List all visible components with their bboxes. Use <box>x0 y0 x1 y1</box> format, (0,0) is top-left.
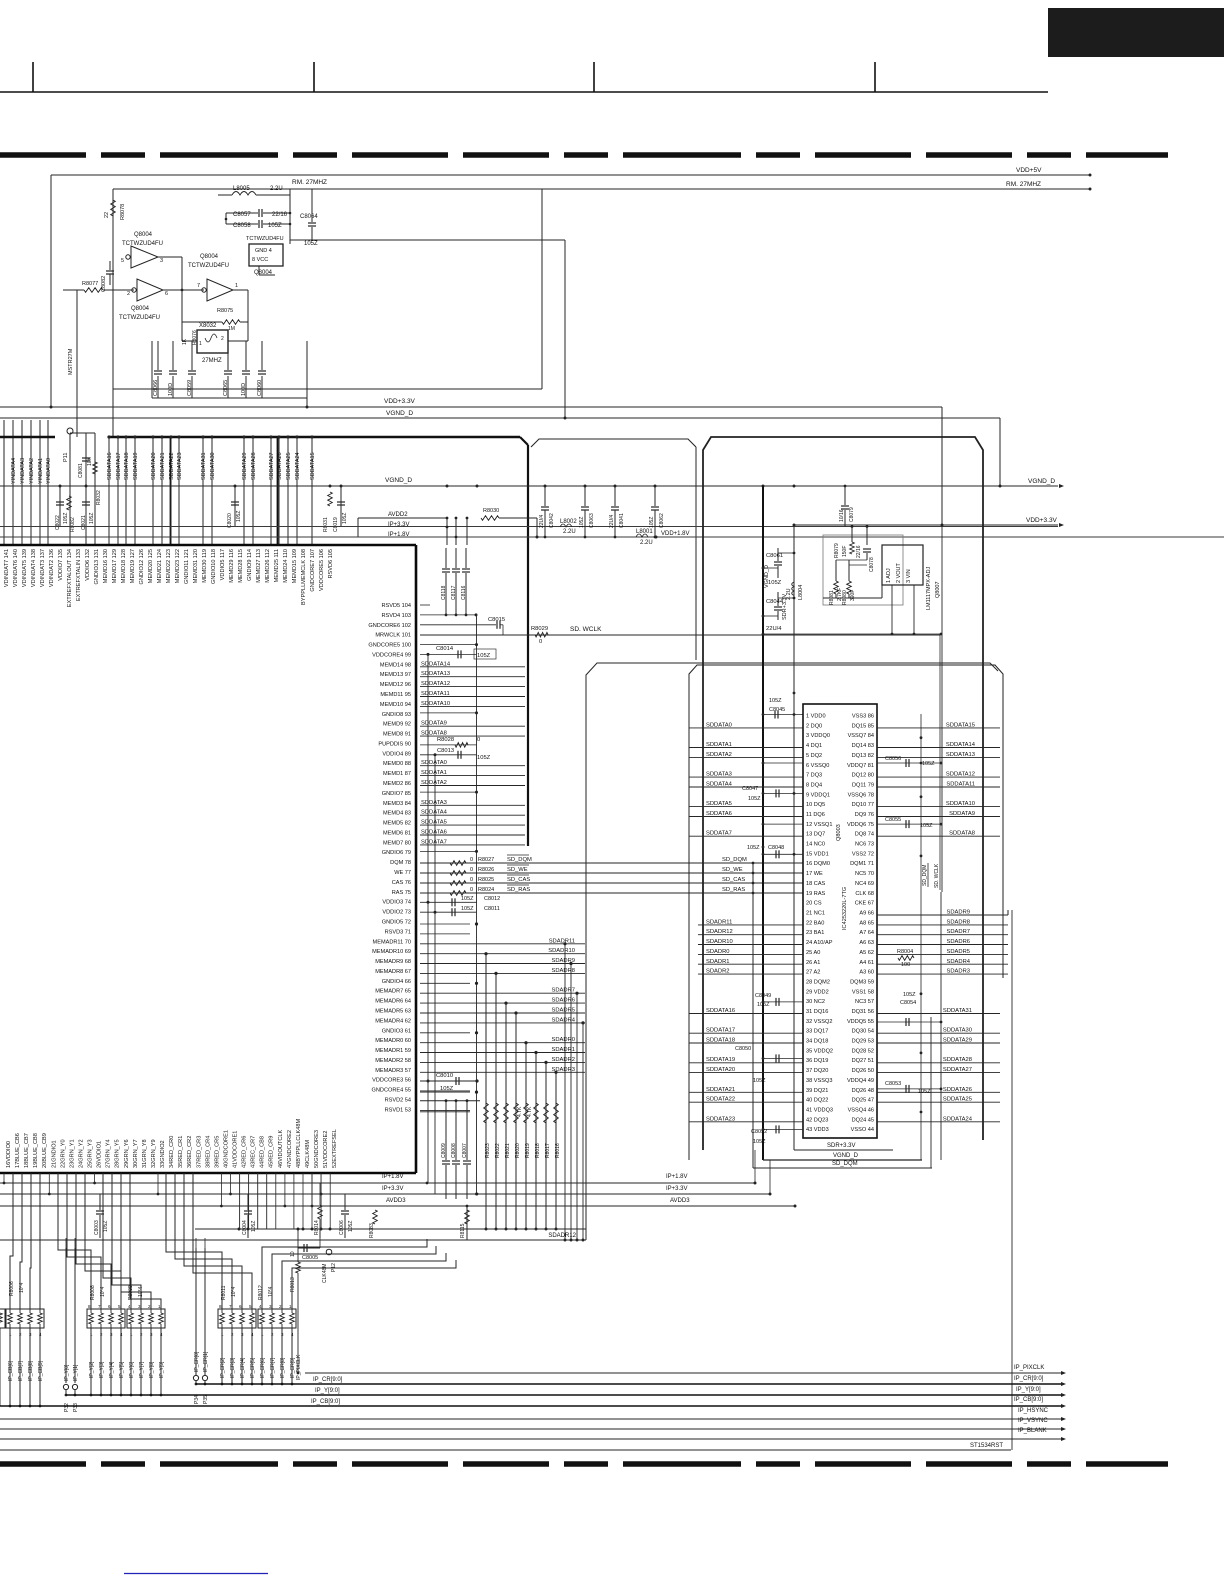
svg-text:8 DQ4: 8 DQ4 <box>806 783 822 789</box>
svg-text:3 VDDQ0: 3 VDDQ0 <box>806 733 830 739</box>
svg-text:MEMD3 84: MEMD3 84 <box>383 801 411 807</box>
svg-text:105Z: 105Z <box>769 698 782 704</box>
svg-text:SD_DQM: SD_DQM <box>722 857 747 863</box>
svg-text:VDINDAT3 137: VDINDAT3 137 <box>40 549 46 587</box>
svg-text:VDINDAT4 138: VDINDAT4 138 <box>31 549 37 587</box>
svg-text:VSSQ7 84: VSSQ7 84 <box>848 733 874 739</box>
svg-text:VGND_D: VGND_D <box>764 565 770 588</box>
svg-text:DQ9 76: DQ9 76 <box>855 812 874 818</box>
svg-text:IP_PIXCLK: IP_PIXCLK <box>1014 1365 1044 1371</box>
svg-text:ST1534RST: ST1534RST <box>970 1443 1003 1449</box>
svg-text:GND 4: GND 4 <box>255 248 272 254</box>
svg-text:SDDATA1: SDDATA1 <box>706 742 732 748</box>
svg-text:SDDATA9: SDDATA9 <box>949 811 975 817</box>
svg-text:0: 0 <box>470 887 473 893</box>
svg-text:SDDATA25: SDDATA25 <box>286 452 292 480</box>
svg-text:NC5 70: NC5 70 <box>855 871 874 877</box>
svg-text:AVDD3: AVDD3 <box>670 1198 690 1204</box>
svg-text:GNDCORE4 55: GNDCORE4 55 <box>372 1088 411 1094</box>
svg-text:VDDQ5 55: VDDQ5 55 <box>847 1019 874 1025</box>
svg-text:MEMD31 120: MEMD31 120 <box>193 549 199 583</box>
svg-text:SDDATA14: SDDATA14 <box>946 742 976 748</box>
svg-text:R8012: R8012 <box>258 1285 264 1300</box>
svg-text:22U/4: 22U/4 <box>609 514 615 528</box>
svg-text:Q8007: Q8007 <box>935 581 941 598</box>
svg-text:Q8004: Q8004 <box>131 306 150 312</box>
svg-text:SDDATA11: SDDATA11 <box>421 691 450 697</box>
svg-text:MEMADR8 67: MEMADR8 67 <box>375 969 411 975</box>
svg-text:BYPPLLMEMCLK 108: BYPPLLMEMCLK 108 <box>301 549 307 605</box>
svg-text:2.2U: 2.2U <box>270 186 283 192</box>
svg-text:18BLUE_CB7: 18BLUE_CB7 <box>24 1133 30 1168</box>
svg-text:IP_CB[9]: IP_CB[9] <box>38 1360 44 1381</box>
svg-text:43 VDD3: 43 VDD3 <box>806 1127 829 1133</box>
svg-text:GNDCORE6 102: GNDCORE6 102 <box>368 623 411 629</box>
svg-text:SDADR4: SDADR4 <box>551 1017 575 1023</box>
svg-text:105Z: 105Z <box>918 1089 931 1095</box>
svg-text:SDADR3: SDADR3 <box>946 969 970 975</box>
svg-text:22 BA0: 22 BA0 <box>806 920 824 926</box>
svg-text:SDADR6: SDADR6 <box>946 939 970 945</box>
svg-text:RSVD5 104: RSVD5 104 <box>381 603 411 609</box>
svg-text:15 VDD1: 15 VDD1 <box>806 851 829 857</box>
svg-text:MEMD22 123: MEMD22 123 <box>166 549 172 583</box>
svg-text:41 VDDQ3: 41 VDDQ3 <box>806 1108 833 1114</box>
svg-text:17 WE: 17 WE <box>806 871 823 877</box>
svg-text:390F: 390F <box>850 590 856 601</box>
svg-text:VSS3 86: VSS3 86 <box>852 714 874 720</box>
svg-text:VSSQ4 46: VSSQ4 46 <box>848 1108 874 1114</box>
svg-text:SDADR5: SDADR5 <box>946 949 970 955</box>
svg-text:8 VCC: 8 VCC <box>252 257 268 263</box>
svg-text:C8021: C8021 <box>81 515 87 530</box>
svg-text:DQ13 82: DQ13 82 <box>852 753 874 759</box>
svg-text:SD_RAS: SD_RAS <box>507 887 530 893</box>
svg-text:IP_CR[0]: IP_CR[0] <box>194 1351 200 1372</box>
svg-text:C8048: C8048 <box>768 845 784 851</box>
svg-text:C8055: C8055 <box>885 817 901 823</box>
svg-text:R8017: R8017 <box>545 1143 551 1158</box>
svg-text:MEMADR1 59: MEMADR1 59 <box>375 1048 411 1054</box>
svg-text:7: 7 <box>197 283 200 289</box>
svg-text:23 BA1: 23 BA1 <box>806 930 824 936</box>
svg-text:RSVD6 105: RSVD6 105 <box>328 549 334 579</box>
svg-text:MEMADR9 68: MEMADR9 68 <box>375 959 411 965</box>
svg-text:A4 61: A4 61 <box>859 960 874 966</box>
svg-text:105Z: 105Z <box>103 1221 109 1232</box>
svg-text:C8065: C8065 <box>223 380 229 396</box>
svg-text:IP_Y[0]: IP_Y[0] <box>64 1364 70 1381</box>
svg-text:C8022: C8022 <box>55 515 61 530</box>
svg-text:11 DQ6: 11 DQ6 <box>806 812 825 818</box>
svg-text:C8041: C8041 <box>619 513 625 528</box>
svg-text:C8014: C8014 <box>436 646 454 652</box>
svg-text:YINDATA2: YINDATA2 <box>29 458 35 484</box>
svg-text:C8005: C8005 <box>302 1255 318 1261</box>
svg-text:MEMD21 124: MEMD21 124 <box>157 549 163 583</box>
svg-text:SDDATA31: SDDATA31 <box>201 452 207 480</box>
svg-text:R8019: R8019 <box>525 1143 531 1158</box>
svg-text:VDDQ4 49: VDDQ4 49 <box>847 1078 874 1084</box>
svg-text:C8054: C8054 <box>900 1000 916 1006</box>
svg-text:IP_CB[9:0]: IP_CB[9:0] <box>1014 1397 1043 1403</box>
svg-text:TCTWZUD4FU: TCTWZUD4FU <box>122 241 163 247</box>
svg-text:R8016: R8016 <box>555 1143 561 1158</box>
svg-text:SDDATA19: SDDATA19 <box>133 452 139 480</box>
svg-text:R8013: R8013 <box>290 1277 296 1292</box>
svg-text:31GRN_Y8: 31GRN_Y8 <box>142 1139 148 1168</box>
svg-text:R8025: R8025 <box>478 877 494 883</box>
svg-text:105Z: 105Z <box>579 517 585 528</box>
svg-text:4.7K: 4.7K <box>517 1106 523 1117</box>
svg-text:C8045: C8045 <box>769 707 785 713</box>
svg-text:105Z: 105Z <box>747 845 760 851</box>
svg-text:2 VOUT: 2 VOUT <box>896 562 902 583</box>
svg-text:IP+3.3V: IP+3.3V <box>382 1186 404 1192</box>
svg-text:IP_CB[6]: IP_CB[6] <box>8 1360 14 1381</box>
svg-text:MEMD30 119: MEMD30 119 <box>202 549 208 583</box>
svg-text:SDDATA13: SDDATA13 <box>946 752 975 758</box>
svg-text:MEMD15 109: MEMD15 109 <box>292 549 298 583</box>
svg-text:L8004: L8004 <box>798 585 804 600</box>
svg-text:C8059: C8059 <box>187 380 193 396</box>
svg-text:GNDCORE7 107: GNDCORE7 107 <box>310 549 316 592</box>
svg-text:GNDIO4 66: GNDIO4 66 <box>382 979 411 985</box>
svg-text:40 DQ22: 40 DQ22 <box>806 1098 828 1104</box>
svg-text:EXTREFXTALIN 133: EXTREFXTALIN 133 <box>76 549 82 601</box>
svg-text:3 VIN: 3 VIN <box>906 569 912 583</box>
svg-text:MSTR27M: MSTR27M <box>68 348 74 375</box>
svg-text:105Z: 105Z <box>461 896 474 902</box>
svg-text:SDDATA3: SDDATA3 <box>706 772 732 778</box>
svg-text:VDD+5V: VDD+5V <box>1016 167 1042 174</box>
svg-text:A5 62: A5 62 <box>859 950 874 956</box>
svg-text:YINDATA0: YINDATA0 <box>46 458 52 484</box>
svg-text:CKE 67: CKE 67 <box>855 901 874 907</box>
svg-text:SD. WCLK: SD. WCLK <box>570 626 602 633</box>
svg-text:43REC_CR7: 43REC_CR7 <box>251 1136 257 1168</box>
svg-text:C8006: C8006 <box>339 1220 345 1235</box>
svg-text:105Z: 105Z <box>903 992 916 998</box>
svg-text:X8032: X8032 <box>199 323 217 329</box>
svg-text:DQ25 47: DQ25 47 <box>852 1098 874 1104</box>
svg-text:4 DQ1: 4 DQ1 <box>806 743 822 749</box>
svg-text:26VDDIO1: 26VDDIO1 <box>97 1141 103 1168</box>
svg-text:IP_VSYNC: IP_VSYNC <box>1018 1418 1048 1424</box>
svg-text:105Z: 105Z <box>89 513 95 524</box>
svg-text:12 VSSQ1: 12 VSSQ1 <box>806 822 832 828</box>
svg-text:R8032: R8032 <box>96 490 102 505</box>
svg-text:38 VSSQ3: 38 VSSQ3 <box>806 1078 832 1084</box>
svg-text:VGND_D: VGND_D <box>385 477 412 484</box>
svg-text:VSSO 44: VSSO 44 <box>851 1127 874 1133</box>
svg-text:Q8004: Q8004 <box>134 232 153 238</box>
svg-text:IP_Y[9:0]: IP_Y[9:0] <box>1016 1387 1041 1393</box>
svg-text:22GRN_Y0: 22GRN_Y0 <box>60 1139 66 1168</box>
svg-text:105Z: 105Z <box>649 517 655 528</box>
svg-text:RSVD3 71: RSVD3 71 <box>385 929 411 935</box>
svg-text:DQ30 54: DQ30 54 <box>852 1029 874 1035</box>
svg-text:R8023: R8023 <box>485 1143 491 1158</box>
svg-text:SDDATA12: SDDATA12 <box>421 681 450 687</box>
svg-text:SDDATA8: SDDATA8 <box>421 731 447 737</box>
svg-text:SD_CAS: SD_CAS <box>507 877 530 883</box>
svg-text:25GRN_Y3: 25GRN_Y3 <box>88 1139 94 1168</box>
svg-text:GNDIO8 93: GNDIO8 93 <box>382 712 411 718</box>
svg-text:36RED_CR2: 36RED_CR2 <box>187 1136 193 1168</box>
svg-text:105Z: 105Z <box>236 511 242 522</box>
svg-text:R8021: R8021 <box>505 1143 511 1158</box>
svg-text:SDDATA28: SDDATA28 <box>943 1057 972 1063</box>
svg-text:R8079: R8079 <box>834 543 840 558</box>
svg-text:R8076: R8076 <box>192 330 198 345</box>
svg-text:R8028: R8028 <box>437 737 454 743</box>
svg-text:IP_Y[1]: IP_Y[1] <box>73 1364 79 1381</box>
svg-text:SDDATA4: SDDATA4 <box>421 810 448 816</box>
svg-text:105Z: 105Z <box>304 241 318 247</box>
svg-text:35 VDDQ2: 35 VDDQ2 <box>806 1048 833 1054</box>
svg-text:MEMD23 122: MEMD23 122 <box>175 549 181 583</box>
svg-text:33GNDIO2: 33GNDIO2 <box>160 1140 166 1168</box>
svg-text:16VDDIO0: 16VDDIO0 <box>6 1141 12 1168</box>
svg-text:SDDATA23: SDDATA23 <box>706 1116 735 1122</box>
svg-text:R8078: R8078 <box>120 204 126 220</box>
svg-text:DQ12 80: DQ12 80 <box>852 773 874 779</box>
svg-text:105Z: 105Z <box>922 761 935 767</box>
svg-text:R8027: R8027 <box>478 857 494 863</box>
svg-text:C8079: C8079 <box>849 507 855 522</box>
svg-text:MEMD25 111: MEMD25 111 <box>274 549 280 582</box>
svg-text:MEMADR0 60: MEMADR0 60 <box>375 1038 411 1044</box>
svg-text:25 A0: 25 A0 <box>806 950 820 956</box>
svg-text:MEMADR11 70: MEMADR11 70 <box>373 939 411 945</box>
svg-text:SDDATA17: SDDATA17 <box>116 452 122 480</box>
svg-text:3: 3 <box>160 258 163 264</box>
svg-text:C8064: C8064 <box>300 214 318 220</box>
svg-text:IP_Y[5]: IP_Y[5] <box>119 1361 125 1378</box>
svg-text:42 DQ23: 42 DQ23 <box>806 1117 828 1123</box>
svg-text:R8022: R8022 <box>495 1143 501 1158</box>
svg-text:SDDATA26: SDDATA26 <box>943 1087 972 1093</box>
svg-text:AVDD2: AVDD2 <box>388 512 408 518</box>
svg-text:DQ8 74: DQ8 74 <box>855 832 874 838</box>
svg-text:VDDIO2 73: VDDIO2 73 <box>382 910 411 916</box>
svg-text:DQ15 85: DQ15 85 <box>852 723 874 729</box>
svg-text:A9 66: A9 66 <box>859 911 874 917</box>
svg-text:GNDIO9 114: GNDIO9 114 <box>247 549 253 581</box>
svg-text:VDINDAT5 139: VDINDAT5 139 <box>22 549 28 587</box>
svg-text:105Z: 105Z <box>63 513 69 524</box>
svg-text:20 CS: 20 CS <box>806 901 822 907</box>
svg-text:SDDATA9: SDDATA9 <box>421 721 447 727</box>
svg-text:SD_DQM: SD_DQM <box>507 857 532 863</box>
svg-text:SDDATA15: SDDATA15 <box>946 722 975 728</box>
svg-text:NC3 57: NC3 57 <box>855 999 874 1005</box>
svg-text:GNDIO12 126: GNDIO12 126 <box>139 549 145 584</box>
svg-text:19BLUE_CB8: 19BLUE_CB8 <box>33 1133 39 1168</box>
svg-text:SDADR0: SDADR0 <box>706 949 730 955</box>
svg-text:SDDATA8: SDDATA8 <box>949 831 975 837</box>
svg-text:MEMD24 110: MEMD24 110 <box>283 549 289 583</box>
svg-text:P11: P11 <box>63 453 69 462</box>
svg-text:MEMD17 129: MEMD17 129 <box>112 549 118 583</box>
svg-text:SDADR6: SDADR6 <box>551 998 575 1004</box>
svg-text:VSS1 58: VSS1 58 <box>852 989 874 995</box>
svg-text:SD_RAS: SD_RAS <box>722 887 745 893</box>
svg-text:SD_DQM: SD_DQM <box>832 1161 858 1167</box>
svg-text:GNDIO11 121: GNDIO11 121 <box>184 549 190 584</box>
svg-text:SDDATA11: SDDATA11 <box>946 782 975 788</box>
svg-text:105Z: 105Z <box>748 796 761 802</box>
svg-text:IP_Y[3]: IP_Y[3] <box>99 1361 105 1378</box>
svg-text:TCTWZUD4FU: TCTWZUD4FU <box>188 263 229 269</box>
svg-text:C8078: C8078 <box>869 557 875 572</box>
svg-text:41VDDCORE1: 41VDDCORE1 <box>233 1131 239 1168</box>
svg-text:SD_CAS: SD_CAS <box>722 877 745 883</box>
svg-text:IP+3.3V: IP+3.3V <box>666 1186 688 1192</box>
svg-text:2.2U: 2.2U <box>640 540 653 546</box>
svg-text:MEMD14 98: MEMD14 98 <box>380 662 411 668</box>
svg-text:5: 5 <box>121 258 124 264</box>
svg-text:R8082: R8082 <box>70 517 76 532</box>
svg-text:MEMD27 113: MEMD27 113 <box>256 549 262 583</box>
svg-text:P34: P34 <box>194 1395 200 1404</box>
svg-text:C8047: C8047 <box>742 786 758 792</box>
svg-text:35RED_CR1: 35RED_CR1 <box>178 1136 184 1168</box>
svg-text:44RED_CB8: 44RED_CB8 <box>260 1136 266 1168</box>
svg-text:6 VSSQ0: 6 VSSQ0 <box>806 763 829 769</box>
svg-text:YINDATA1: YINDATA1 <box>38 458 44 484</box>
svg-text:SDADR11: SDADR11 <box>549 938 575 944</box>
svg-text:MEMD5 82: MEMD5 82 <box>383 821 411 827</box>
svg-text:30GRN_Y7: 30GRN_Y7 <box>133 1139 139 1168</box>
svg-text:DQ26 50: DQ26 50 <box>852 1068 874 1074</box>
svg-text:VDDQ7 81: VDDQ7 81 <box>847 763 874 769</box>
svg-text:IP_Y[8]: IP_Y[8] <box>149 1361 155 1378</box>
svg-text:DQ24 45: DQ24 45 <box>852 1117 874 1123</box>
svg-text:52EXTREFSEL: 52EXTREFSEL <box>332 1129 338 1168</box>
svg-text:IP_CR[7]: IP_CR[7] <box>270 1357 276 1378</box>
svg-text:SDDATA10: SDDATA10 <box>421 701 450 707</box>
svg-text:R8004: R8004 <box>897 949 913 955</box>
svg-text:CLK 68: CLK 68 <box>855 891 874 897</box>
svg-text:MEMD28 115: MEMD28 115 <box>238 549 244 583</box>
svg-text:R8029: R8029 <box>531 626 548 632</box>
svg-text:SDDATA13: SDDATA13 <box>421 671 450 677</box>
svg-text:MEMD18 128: MEMD18 128 <box>121 549 127 583</box>
svg-text:DQ14 83: DQ14 83 <box>852 743 874 749</box>
svg-text:105Z: 105Z <box>753 1139 766 1145</box>
svg-text:105Z: 105Z <box>753 1078 766 1084</box>
svg-text:TCTWZUD4FU: TCTWZUD4FU <box>119 315 160 321</box>
svg-text:R8030: R8030 <box>483 508 499 514</box>
svg-text:40GNDCORE1: 40GNDCORE1 <box>223 1130 229 1168</box>
svg-text:VSSQ6 78: VSSQ6 78 <box>848 792 874 798</box>
svg-text:22U/4: 22U/4 <box>539 514 545 528</box>
svg-text:IP_PIXCLK: IP_PIXCLK <box>296 1354 302 1380</box>
svg-text:MEMD2 86: MEMD2 86 <box>383 781 411 787</box>
svg-text:R8115: R8115 <box>460 1223 466 1238</box>
svg-text:MEMD19 127: MEMD19 127 <box>130 549 136 583</box>
svg-text:VDD+3.3V: VDD+3.3V <box>1026 517 1058 524</box>
svg-text:RM. 27MHZ: RM. 27MHZ <box>292 179 327 186</box>
svg-text:IP_Y[9]: IP_Y[9] <box>159 1361 165 1378</box>
svg-text:A6 63: A6 63 <box>859 940 874 946</box>
svg-text:IP_CR[8]: IP_CR[8] <box>280 1357 286 1378</box>
svg-text:SDDATA7: SDDATA7 <box>421 839 447 845</box>
svg-text:50GNDCORE3: 50GNDCORE3 <box>314 1130 320 1168</box>
svg-text:C8052: C8052 <box>751 1129 767 1135</box>
svg-text:AVDD3: AVDD3 <box>386 1198 406 1204</box>
svg-text:42RED_CR6: 42RED_CR6 <box>242 1136 248 1168</box>
svg-text:NC6 73: NC6 73 <box>855 842 874 848</box>
svg-text:SDADR2: SDADR2 <box>551 1057 575 1063</box>
svg-text:RSVD1 53: RSVD1 53 <box>385 1107 411 1113</box>
svg-text:VDDIO5 117: VDDIO5 117 <box>220 549 226 580</box>
svg-text:SDDATA6: SDDATA6 <box>421 830 447 836</box>
svg-text:MEMD10 94: MEMD10 94 <box>380 702 411 708</box>
svg-text:C8008: C8008 <box>451 1143 457 1158</box>
svg-text:SDDATA1: SDDATA1 <box>421 770 447 776</box>
svg-text:SDDATA27: SDDATA27 <box>943 1067 972 1073</box>
svg-text:EXTREFXTALOUT 134: EXTREFXTALOUT 134 <box>67 549 73 607</box>
svg-text:IP_CB[8]: IP_CB[8] <box>28 1360 34 1381</box>
svg-text:150F: 150F <box>842 546 848 557</box>
svg-text:SDDATA22: SDDATA22 <box>169 452 175 480</box>
svg-text:RM. 27MHZ: RM. 27MHZ <box>1006 181 1041 188</box>
svg-text:105Z: 105Z <box>342 513 348 524</box>
svg-text:SDDATA22: SDDATA22 <box>706 1097 735 1103</box>
svg-text:MEMD20 125: MEMD20 125 <box>148 549 154 583</box>
svg-text:1K: 1K <box>182 338 188 345</box>
svg-text:GNDIO6 79: GNDIO6 79 <box>382 850 411 856</box>
svg-text:IP_CR[2]: IP_CR[2] <box>220 1357 226 1378</box>
svg-text:C8056: C8056 <box>885 756 901 762</box>
svg-text:SDDATA15: SDDATA15 <box>310 452 316 480</box>
svg-text:SDDATA16: SDDATA16 <box>706 1008 735 1014</box>
svg-text:21GNDIO1: 21GNDIO1 <box>51 1140 57 1168</box>
svg-text:36 DQ19: 36 DQ19 <box>806 1058 828 1064</box>
svg-text:SDADR7: SDADR7 <box>551 988 575 994</box>
svg-text:SDADR2: SDADR2 <box>706 969 730 975</box>
svg-text:R8026: R8026 <box>478 867 494 873</box>
svg-text:R8031: R8031 <box>323 517 329 532</box>
svg-text:P12: P12 <box>331 1263 337 1272</box>
svg-text:SDR+3.3V: SDR+3.3V <box>827 1143 856 1149</box>
svg-text:Q8003: Q8003 <box>836 824 842 841</box>
svg-text:VGND_D: VGND_D <box>833 1153 859 1159</box>
svg-text:GNDIO10 118: GNDIO10 118 <box>211 549 217 584</box>
svg-text:C8020: C8020 <box>227 513 233 528</box>
svg-text:NC4 69: NC4 69 <box>855 881 874 887</box>
svg-text:VDDCORE5 106: VDDCORE5 106 <box>319 549 325 591</box>
svg-text:R8014: R8014 <box>314 1220 320 1235</box>
svg-text:100D: 100D <box>168 383 174 396</box>
svg-text:28GRN_Y5: 28GRN_Y5 <box>115 1139 121 1168</box>
svg-text:VSS2 72: VSS2 72 <box>852 851 874 857</box>
svg-text:21 NC1: 21 NC1 <box>806 911 825 917</box>
svg-text:14 NC0: 14 NC0 <box>806 842 825 848</box>
svg-text:SDDATA21: SDDATA21 <box>706 1087 735 1093</box>
svg-text:SDDATA26: SDDATA26 <box>277 452 283 480</box>
svg-text:16 DQM0: 16 DQM0 <box>806 861 830 867</box>
svg-text:SDDATA2: SDDATA2 <box>706 752 732 758</box>
svg-text:10K: 10K <box>87 456 93 466</box>
svg-text:49CLK48M: 49CLK48M <box>305 1140 311 1168</box>
svg-text:IP_Y[4]: IP_Y[4] <box>109 1361 115 1378</box>
svg-text:VDINDAT6 140: VDINDAT6 140 <box>13 549 19 587</box>
svg-text:34 DQ18: 34 DQ18 <box>806 1039 828 1045</box>
